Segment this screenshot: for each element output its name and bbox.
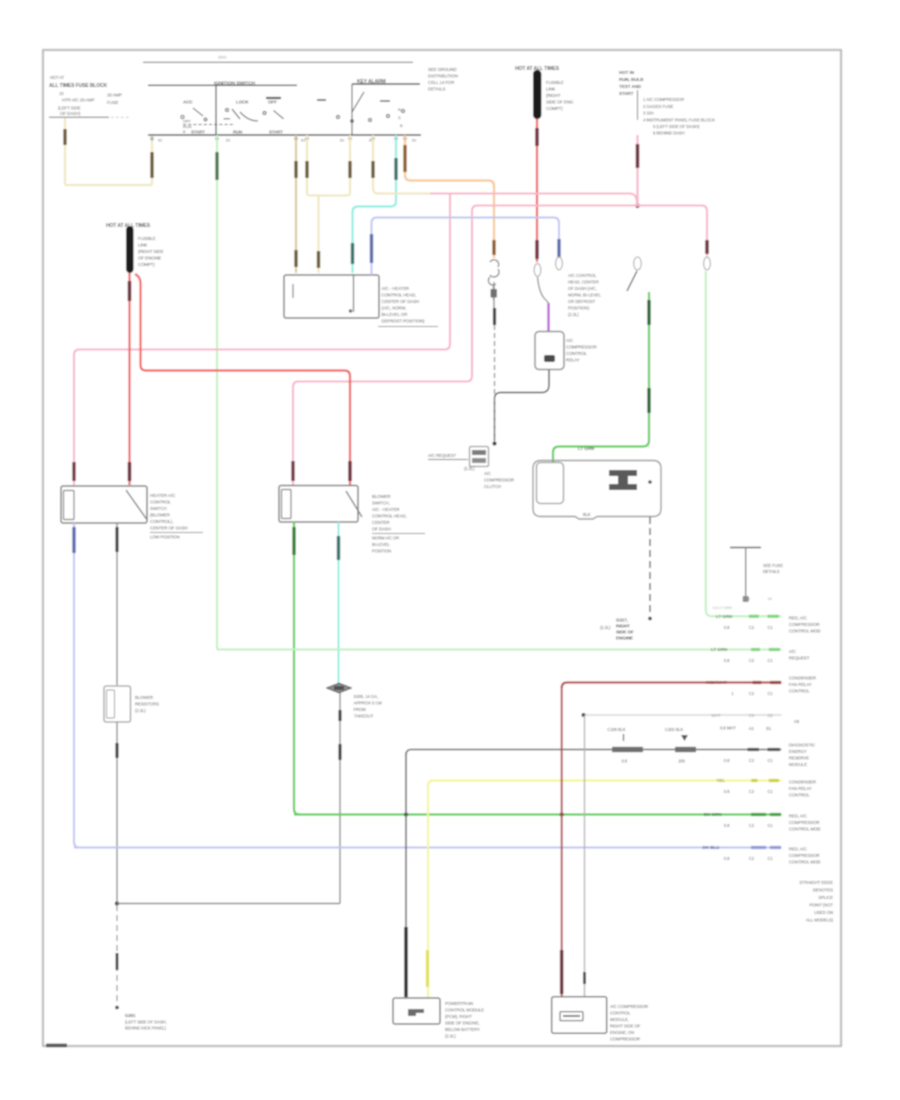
svg-text:BI-LEVEL: BI-LEVEL: [372, 542, 390, 547]
svg-text:POSITION): POSITION): [568, 306, 590, 311]
svg-text:0.8: 0.8: [724, 823, 730, 828]
svg-text:A/C REQUEST: A/C REQUEST: [428, 453, 457, 458]
svg-text:G117,: G117,: [616, 618, 628, 623]
svg-text:3 10A: 3 10A: [643, 111, 654, 116]
row 1: LT GRN to blower relay: [712, 615, 782, 617]
heater A/C control switch: [61, 486, 147, 523]
svg-text:REQUEST: REQUEST: [789, 656, 810, 661]
svg-text:BLOWER: BLOWER: [135, 695, 153, 700]
svg-text:(2.2L): (2.2L): [600, 625, 611, 630]
svg-text:DETAILS: DETAILS: [763, 569, 780, 574]
svg-text:(BLOWER: (BLOWER: [150, 513, 170, 518]
svg-text:1 A/C COMPRESSOR: 1 A/C COMPRESSOR: [643, 97, 684, 102]
svg-text:DIAGNOSTIC: DIAGNOSTIC: [789, 743, 815, 748]
svg-text:C100 BLK: C100 BLK: [607, 727, 626, 732]
svg-text:LT GRN: LT GRN: [711, 647, 728, 652]
svg-text:CLUTCH: CLUTCH: [484, 484, 501, 489]
svg-text:0.8: 0.8: [622, 759, 628, 764]
wire DK GRN from blower switch to row 7: [293, 522, 295, 809]
svg-text:C3: C3: [749, 713, 755, 718]
svg-text:BEHIND KICK PANEL): BEHIND KICK PANEL): [125, 1026, 167, 1031]
svg-text:RED, A/C: RED, A/C: [789, 847, 807, 852]
svg-text:RELAY: RELAY: [566, 358, 580, 363]
svg-text:OF ENGINE: OF ENGINE: [138, 256, 161, 261]
svg-text:A/C CONTROL: A/C CONTROL: [568, 273, 597, 278]
wire RED below fusible link to A/C control connector: [536, 119, 538, 262]
svg-text:ACC: ACC: [183, 100, 193, 105]
svg-text:(2.2L): (2.2L): [135, 708, 146, 713]
bus pin marks: [151, 137, 154, 140]
svg-text:ALL TIMES FUSE BLOCK: ALL TIMES FUSE BLOCK: [49, 83, 108, 89]
svg-text:RESISTORS: RESISTORS: [135, 702, 159, 707]
svg-text:CONTROL),: CONTROL),: [150, 519, 173, 524]
svg-text:DK BLU: DK BLU: [703, 845, 721, 850]
powertrain control module: [393, 998, 440, 1024]
svg-text:USED ON: USED ON: [814, 910, 833, 915]
row 2: LT GRN ignition feed: [217, 649, 782, 651]
svg-text:B3: B3: [301, 139, 305, 143]
top connector line: [143, 61, 413, 63]
svg-text:CONTROL: CONTROL: [566, 351, 587, 356]
svg-text:2 GAGES FUSE: 2 GAGES FUSE: [643, 104, 674, 109]
in-line connector (red): [534, 264, 541, 277]
svg-text:6 BEHIND DASH: 6 BEHIND DASH: [653, 131, 685, 136]
A/C compressor control relay box: [535, 332, 564, 370]
svg-text:DETAILS: DETAILS: [428, 87, 445, 92]
accessory header line (right): [352, 83, 420, 85]
svg-text:(2.2L): (2.2L): [445, 1034, 456, 1039]
svg-text:0.8 LT GRN: 0.8 LT GRN: [713, 605, 733, 610]
svg-text:SPLICE: SPLICE: [818, 895, 833, 900]
wire LT BLU (cyan) from bus to control head pin C: [395, 135, 397, 201]
svg-text:NORM A/C OR: NORM A/C OR: [372, 536, 399, 541]
svg-text:SEE GROUND: SEE GROUND: [428, 67, 457, 72]
svg-text:BELOW BATTERY: BELOW BATTERY: [445, 1027, 480, 1032]
svg-text:(RIGHT SIDE: (RIGHT SIDE: [138, 249, 164, 254]
wire PNK run to heater A/C control switch 1: [74, 344, 450, 485]
svg-text:LOW POSITION: LOW POSITION: [150, 535, 180, 540]
svg-text:LT GRN: LT GRN: [716, 614, 733, 619]
svg-text:HTR A/C 25 AMP: HTR A/C 25 AMP: [62, 98, 95, 103]
svg-text:0.8: 0.8: [724, 758, 730, 763]
svg-text:START: START: [619, 91, 634, 96]
battery feed stub: [730, 547, 761, 549]
svg-text:APPROX 5 CM: APPROX 5 CM: [354, 701, 383, 706]
switch blade: [627, 271, 637, 291]
svg-text:ENERGY: ENERGY: [789, 749, 807, 754]
wire BLK from control switch to ground run: [116, 523, 118, 685]
svg-text:POWERTRAIN: POWERTRAIN: [445, 1001, 473, 1006]
svg-text:S201: S201: [218, 56, 226, 60]
ignition switch header line: [148, 84, 297, 86]
svg-text:(LEFT SIDE: (LEFT SIDE: [58, 106, 81, 111]
svg-text:C2: C2: [749, 625, 755, 630]
svg-text:SEE FUSE: SEE FUSE: [763, 563, 783, 568]
svg-text:OF DASH): OF DASH): [60, 111, 81, 116]
wire RED to heater A/C control sw: [128, 273, 130, 485]
ignition switch output bus: [148, 134, 421, 136]
svg-text:CONTROL MOD: CONTROL MOD: [789, 827, 821, 832]
svg-text:START: START: [269, 130, 283, 135]
svg-text:TAKEOUT: TAKEOUT: [354, 714, 374, 719]
svg-text:C1: C1: [768, 625, 774, 630]
svg-text:C2: C2: [749, 691, 755, 696]
svg-text:C2: C2: [749, 823, 755, 828]
svg-text:(A/C, NORM,: (A/C, NORM,: [382, 306, 407, 311]
resistor block component: [104, 686, 131, 722]
svg-text:B3: B3: [340, 139, 344, 143]
svg-text:CENTER OF DASH: CENTER OF DASH: [382, 299, 419, 304]
svg-text:FUSIBLE: FUSIBLE: [138, 236, 156, 241]
row 7: DK GRN: [294, 813, 782, 815]
ground junction: [115, 901, 119, 905]
wire DK BLU control head run: [372, 218, 560, 276]
svg-text:OFF: OFF: [183, 119, 191, 124]
svg-text:CONTROL HEAD,: CONTROL HEAD,: [372, 514, 407, 519]
row 6: YEL: [428, 781, 782, 787]
svg-text:COMPT): COMPT): [138, 262, 155, 267]
wire TAN branch pair to control head pin B: [306, 135, 308, 193]
svg-text:A/C: A/C: [566, 338, 573, 343]
svg-text:(2.2L): (2.2L): [464, 466, 475, 471]
svg-text:RUN: RUN: [233, 130, 242, 135]
svg-text:(RIGHT: (RIGHT: [546, 93, 561, 98]
svg-text:0.8: 0.8: [724, 856, 730, 861]
svg-text:OR DEFROST: OR DEFROST: [568, 299, 596, 304]
svg-text:A2: A2: [749, 726, 755, 731]
svg-text:COMPRESSOR: COMPRESSOR: [789, 622, 820, 627]
svg-text:CONTROL MODULE: CONTROL MODULE: [445, 1008, 484, 1013]
svg-text:15: 15: [59, 91, 64, 96]
svg-text:IGNITION SWITCH: IGNITION SWITCH: [214, 80, 255, 86]
wire DK BLU from control switch to row 8: [73, 523, 75, 842]
svg-text:A/C: A/C: [789, 649, 796, 654]
wire YEL to pcm: [427, 784, 429, 998]
svg-text:DEFROST POSITION): DEFROST POSITION): [382, 319, 425, 324]
svg-text:COMPRESSOR: COMPRESSOR: [566, 345, 597, 350]
svg-text:OFF: OFF: [268, 100, 277, 105]
svg-text:SWITCH: SWITCH: [150, 506, 167, 511]
svg-text:COMPRESSOR: COMPRESSOR: [789, 853, 820, 858]
svg-text:POINT (NOT: POINT (NOT: [809, 903, 833, 908]
svg-text:HEAD, CENTER: HEAD, CENTER: [568, 280, 599, 285]
svg-text:OF DASH (A/C,: OF DASH (A/C,: [568, 286, 597, 291]
svg-text:B3: B3: [412, 139, 416, 143]
svg-text:DENOTES: DENOTES: [813, 888, 833, 893]
svg-text:ENGINE: ENGINE: [616, 636, 633, 641]
row 5: BLK diagnostic: [406, 750, 782, 756]
svg-text:BI-LEVEL OR: BI-LEVEL OR: [382, 312, 408, 317]
svg-text:MODULE: MODULE: [789, 762, 807, 767]
svg-text:COMPT): COMPT): [546, 106, 563, 111]
svg-text:CONDENSER: CONDENSER: [789, 676, 816, 681]
wire PNK from fuse to junction: [636, 135, 638, 204]
svg-text:DISTRIBUTION: DISTRIBUTION: [428, 74, 458, 79]
svg-text:CONDENSER: CONDENSER: [789, 780, 816, 785]
svg-text:A/C - HEATER: A/C - HEATER: [372, 507, 400, 512]
svg-text:RIGHT: RIGHT: [616, 624, 630, 629]
wire RED branch to blower switch: [135, 274, 350, 485]
row 8: DK BLU pale: [74, 847, 782, 849]
svg-text:0.8 WHT: 0.8 WHT: [720, 726, 736, 731]
A/C request junction: [492, 441, 496, 445]
row 3: RED to condenser fan: [562, 683, 782, 689]
svg-text:DK GRN: DK GRN: [704, 812, 722, 817]
svg-text:B3: B3: [226, 139, 230, 143]
svg-text:C2: C2: [749, 856, 755, 861]
clutch glyph: [609, 470, 637, 490]
svg-text:RUN, BULB: RUN, BULB: [619, 77, 644, 82]
in-line connector (orange leads): [490, 260, 499, 267]
svg-text:FUSE: FUSE: [107, 100, 118, 105]
ground bus horizontal: [117, 903, 340, 905]
in-line connector (pnk fuse out): [634, 257, 642, 270]
svg-text:0.8: 0.8: [724, 658, 730, 663]
A/C pressure cycling switch: [470, 447, 489, 467]
svg-text:CONTROL HEAD,: CONTROL HEAD,: [382, 293, 417, 298]
wire BLK from relay to splice: [495, 370, 550, 441]
svg-text:(PCM), RIGHT: (PCM), RIGHT: [445, 1014, 472, 1019]
svg-text:A9: A9: [794, 719, 800, 724]
svg-text:FROM: FROM: [354, 707, 367, 712]
svg-text:(LEFT SIDE OF DASH,: (LEFT SIDE OF DASH,: [125, 1020, 167, 1025]
ignition switch input wire: [215, 85, 217, 135]
svg-text:CONTROL MOD: CONTROL MOD: [789, 860, 821, 865]
svg-text:YEL: YEL: [716, 778, 725, 783]
svg-text:25 AMP: 25 AMP: [107, 93, 122, 98]
svg-text:COMPRESSOR: COMPRESSOR: [789, 820, 820, 825]
in-line connector (blue): [556, 257, 563, 270]
svg-text:FUSIBLE: FUSIBLE: [546, 80, 564, 85]
svg-text:A/C COMPRESSOR: A/C COMPRESSOR: [610, 1004, 648, 1009]
wire PNK run to blower switch: [293, 376, 472, 485]
svg-text:STRAIGHT EDGE: STRAIGHT EDGE: [799, 880, 833, 885]
wire BLK from splice to ground bus: [339, 693, 341, 904]
svg-text:B: B: [400, 123, 403, 128]
in-line connector (pink right): [704, 257, 711, 270]
wire TAN to junction with PNK: [372, 135, 374, 188]
DK GRN wire / diagnostic drop below ORN connector: [493, 282, 495, 325]
svg-text:C1: C1: [768, 758, 774, 763]
svg-text:OF DASH: OF DASH: [372, 527, 391, 532]
svg-text:(2.2L): (2.2L): [568, 312, 579, 317]
svg-text:POSITION: POSITION: [372, 549, 391, 554]
svg-text:FAN RELAY: FAN RELAY: [789, 786, 812, 791]
svg-text:B1: B1: [766, 726, 772, 731]
wire TAN (dark) to control head pin A: [295, 135, 297, 273]
A/C compressor assembly: [533, 461, 661, 520]
svg-text:RED, A/C: RED, A/C: [789, 616, 807, 621]
svg-text:COMPRESSOR: COMPRESSOR: [610, 1037, 640, 1042]
svg-text:HOT IN: HOT IN: [619, 70, 635, 75]
svg-text:RED/WHT: RED/WHT: [706, 680, 727, 685]
svg-text:RESERVE: RESERVE: [789, 756, 809, 761]
svg-text:A/C: A/C: [484, 471, 491, 476]
svg-text:C1: C1: [768, 789, 774, 794]
svg-text:CONTROL MOD: CONTROL MOD: [789, 629, 821, 634]
svg-text:C202 BLK: C202 BLK: [665, 727, 684, 732]
svg-text:LINK: LINK: [138, 243, 148, 248]
svg-text:NORM, BI-LEVEL: NORM, BI-LEVEL: [568, 293, 602, 298]
wire PNK riser to heater control sw: [449, 194, 451, 345]
svg-text:A/C - HEATER: A/C - HEATER: [382, 286, 410, 291]
svg-text:SIDE OF ENG: SIDE OF ENG: [546, 100, 574, 105]
wire PNK riser 2: [471, 211, 473, 376]
wire RED to compressor control module: [561, 686, 563, 997]
svg-text:BLK: BLK: [583, 512, 591, 517]
A/C mode switch: [284, 275, 379, 318]
svg-text:CONTROL: CONTROL: [150, 500, 171, 505]
svg-text:RIGHT SIDE OF: RIGHT SIDE OF: [610, 1024, 641, 1029]
wire LT GRN from connector down to row 1: [705, 271, 707, 610]
svg-text:C2: C2: [749, 658, 755, 663]
wire LT BLU from blower switch to splice: [338, 522, 340, 683]
svg-text:R: R: [398, 107, 401, 112]
wire BLK thin to module: [584, 715, 586, 997]
svg-text:FAN RELAY: FAN RELAY: [789, 682, 812, 687]
svg-text:HEATER-A/C: HEATER-A/C: [150, 493, 175, 498]
svg-text:G201: G201: [125, 1013, 136, 1018]
svg-text:4 INSTRUMENT PANEL FUSE BLOCK: 4 INSTRUMENT PANEL FUSE BLOCK: [643, 118, 715, 123]
page number mark bottom-left: [46, 1044, 67, 1048]
svg-text:8: 8: [748, 596, 750, 601]
svg-text:CONTROL: CONTROL: [610, 1011, 631, 1016]
svg-text:0.8: 0.8: [724, 789, 730, 794]
svg-text:C1: C1: [768, 658, 774, 663]
svg-text:SIDE OF: SIDE OF: [616, 630, 634, 635]
svg-text:CONTROL: CONTROL: [789, 689, 810, 694]
svg-text:BLOWER: BLOWER: [372, 494, 390, 499]
wire PNK junction horizontal (upper): [450, 194, 638, 206]
svg-text:CONTROL: CONTROL: [789, 793, 810, 798]
svg-text:WHT: WHT: [711, 713, 721, 718]
svg-text:S205, 14 GA,: S205, 14 GA,: [354, 694, 379, 699]
wire BLK to pcm: [405, 753, 407, 998]
svg-text:C2: C2: [749, 789, 755, 794]
wire ORN from bus to A/C control connector: [404, 135, 406, 175]
wire LT GRN long run from bus to right connector rows: [216, 135, 218, 648]
svg-text:LT GRN: LT GRN: [578, 446, 595, 451]
svg-text:5 (LEFT SIDE OF DASH): 5 (LEFT SIDE OF DASH): [653, 124, 700, 129]
svg-text:CENTER: CENTER: [372, 520, 389, 525]
svg-text:S: S: [398, 115, 401, 120]
svg-text:HOT AT: HOT AT: [50, 75, 65, 80]
svg-text:C1: C1: [768, 856, 774, 861]
A/C compressor control module: [552, 997, 607, 1034]
svg-text:LINK: LINK: [546, 87, 556, 92]
wire PPL to compressor control relay: [538, 277, 549, 303]
wire PNK junction horizontal (lower): [472, 206, 707, 257]
svg-text:COMPRESSOR: COMPRESSOR: [484, 478, 514, 483]
svg-text:START: START: [191, 130, 205, 135]
svg-text:LOCK: LOCK: [236, 100, 249, 105]
svg-text:C2: C2: [768, 713, 774, 718]
svg-text:MODULE,: MODULE,: [610, 1017, 629, 1022]
svg-text:RED, A/C: RED, A/C: [789, 814, 807, 819]
note list: [637, 90, 639, 120]
blower switch: [279, 486, 358, 523]
svg-text:SIDE OF ENGINE,: SIDE OF ENGINE,: [445, 1021, 480, 1026]
svg-text:0.8: 0.8: [724, 625, 730, 630]
ground lead dashes: [649, 517, 651, 615]
svg-text:C1: C1: [768, 691, 774, 696]
svg-text:SWITCH,: SWITCH,: [372, 501, 390, 506]
svg-text:CENTER OF DASH: CENTER OF DASH: [150, 526, 187, 531]
row 4: WHT faint: [584, 714, 782, 716]
svg-text:C2: C2: [749, 758, 755, 763]
svg-text:B3: B3: [158, 139, 162, 143]
splice S2: [327, 683, 352, 693]
key alarm switch: [351, 84, 353, 135]
svg-text:205: 205: [678, 759, 685, 764]
svg-text:C1: C1: [768, 823, 774, 828]
svg-text:ENGINE, ON: ENGINE, ON: [610, 1030, 634, 1035]
svg-text:TEST AND: TEST AND: [619, 84, 642, 89]
svg-text:CELL 14 FOR: CELL 14 FOR: [428, 80, 454, 85]
svg-text:KEY ALARM: KEY ALARM: [357, 79, 386, 85]
fuse F1 wire (TAN) from fuse block to ignition switch feed: [64, 118, 66, 185]
wire DK GRN to compressor clutch: [553, 292, 649, 462]
svg-text:ALL MODELS): ALL MODELS): [806, 918, 834, 923]
